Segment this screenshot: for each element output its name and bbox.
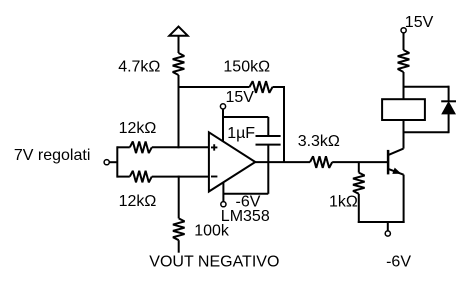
svg-text:VOUT NEGATIVO: VOUT NEGATIVO [149, 254, 279, 271]
wire feedback right leg down to output node [283, 86, 285, 162]
transistor Q1 emitter arrow [392, 168, 401, 174]
wire V- supply stub [222, 182, 224, 202]
wire feedback upper right segment [273, 86, 285, 88]
resistor 12k top [130, 142, 152, 154]
op-amp LM358 triangle [209, 132, 255, 191]
wire relay top lead [403, 72, 405, 99]
wire 100k to VOUT node [178, 240, 180, 253]
wire 12k top to opamp noninverting input [152, 146, 209, 148]
transistor Q1 base bar [387, 150, 390, 175]
svg-text:1kΩ: 1kΩ [329, 194, 358, 211]
resistor 4.7k [173, 53, 185, 75]
capacitor 1uF plates [256, 136, 281, 145]
wire V+ supply stub [222, 109, 224, 142]
svg-text:1µF: 1µF [227, 125, 255, 142]
wire diode branch bottom [403, 131, 449, 133]
svg-text:15V: 15V [405, 14, 434, 31]
resistor top right unlabeled [398, 50, 410, 72]
terminal -6V emitter [385, 231, 390, 236]
wire inverting input line down to 100k [178, 176, 180, 219]
wire emitter bottom rail [358, 221, 405, 223]
op-amp minus input symbol [211, 176, 217, 178]
input terminal circle [104, 160, 109, 165]
wire 4.7k leg down to noninverting input line [178, 75, 180, 148]
wire to 12k bottom [117, 176, 130, 178]
svg-text:-6V: -6V [386, 254, 411, 271]
svg-text:-6V: -6V [236, 194, 261, 211]
wire base node down to 1k [358, 162, 360, 173]
wire opamp output [255, 161, 310, 163]
wire 15V terminal to resistor [403, 33, 405, 50]
resistor 3.3k [310, 156, 332, 168]
wire bypass cap top horizontal [222, 116, 268, 118]
wire input split vertical [116, 146, 118, 177]
transistor Q1 collector lead [387, 149, 403, 156]
wire 1k down to emitter rail [358, 194, 360, 223]
wire bypass cap top leg [267, 117, 269, 136]
svg-text:150kΩ: 150kΩ [223, 59, 270, 76]
svg-text:12kΩ: 12kΩ [119, 193, 157, 210]
wire diode bottom leg [448, 114, 450, 133]
wire bypass cap bottom horizontal [223, 193, 268, 195]
svg-text:15V: 15V [226, 89, 255, 106]
resistor 100k [173, 218, 185, 240]
transistor Q1 emitter lead [387, 169, 403, 175]
wire bypass cap bottom leg [267, 145, 269, 194]
resistor 150k [250, 81, 273, 93]
diode D1 anode triangle [441, 101, 456, 114]
svg-text:4.7kΩ: 4.7kΩ [118, 59, 160, 76]
svg-text:7V regolati: 7V regolati [14, 147, 91, 164]
wire -6V terminal stub [387, 222, 389, 231]
op-amp V- supply terminal [221, 202, 226, 207]
terminal 15V top right [401, 28, 406, 33]
wire 3.3k to transistor base [332, 161, 387, 163]
wire emitter vertical [403, 175, 405, 223]
svg-text:12kΩ: 12kΩ [119, 120, 157, 137]
wire feedback upper left segment [178, 86, 250, 88]
diode D1 cathode bar [441, 100, 456, 102]
wire diode branch top [404, 86, 449, 88]
wire 12k bottom to opamp inverting input [152, 176, 209, 178]
relay coil rectangle [382, 99, 425, 120]
wire to 12k top [117, 146, 130, 148]
power arrow symbol [169, 27, 187, 54]
op-amp plus input symbol [211, 144, 217, 150]
svg-text:3.3kΩ: 3.3kΩ [298, 133, 340, 150]
resistor 12k bottom [130, 171, 152, 183]
wire collector vertical [403, 121, 405, 149]
wire diode top leg [448, 86, 450, 102]
op-amp V+ supply terminal [220, 104, 225, 109]
svg-text:100k: 100k [194, 223, 230, 240]
resistor 1k [353, 173, 365, 194]
wire input stub [109, 161, 117, 163]
